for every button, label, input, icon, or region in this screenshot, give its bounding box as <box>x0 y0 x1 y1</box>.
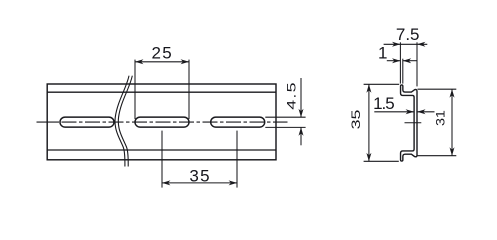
dim 35 line <box>368 84 370 161</box>
svg-text:1.5: 1.5 <box>373 94 394 113</box>
dim 25 line <box>135 61 189 63</box>
dim 31 extension lines <box>418 88 457 90</box>
centerline <box>37 121 288 123</box>
dim 35 extension lines <box>364 83 400 85</box>
rail outline <box>47 84 276 160</box>
dim 1 line <box>387 60 401 62</box>
rail bend line bottom <box>47 149 276 151</box>
svg-text:7.5: 7.5 <box>396 25 420 44</box>
svg-text:1: 1 <box>378 44 387 63</box>
break line <box>115 76 129 167</box>
web center mark <box>405 122 422 124</box>
slot 3 <box>211 117 265 127</box>
svg-text:35: 35 <box>350 110 363 130</box>
dim 4.5 arrow lines <box>300 78 302 117</box>
dim 1.5 lines <box>374 111 414 113</box>
slot 2 <box>135 117 189 127</box>
dim 7.5 line <box>384 43 428 45</box>
dim 1 extension line <box>402 59 404 84</box>
dim 7.5 extension lines <box>399 42 401 83</box>
profile outline <box>401 85 417 161</box>
svg-text:4.5: 4.5 <box>285 81 298 110</box>
svg-text:31: 31 <box>434 110 447 126</box>
dim 31 line <box>451 89 453 156</box>
slot 1 <box>60 117 114 127</box>
dim 35 extension lines <box>161 131 163 188</box>
dim 35 line <box>162 182 237 184</box>
dim 4.5 extension lines <box>265 116 305 118</box>
dim 25 extension lines <box>134 60 136 119</box>
svg-text:35: 35 <box>189 167 211 186</box>
rail bend line top <box>47 91 276 93</box>
svg-text:25: 25 <box>151 43 173 62</box>
